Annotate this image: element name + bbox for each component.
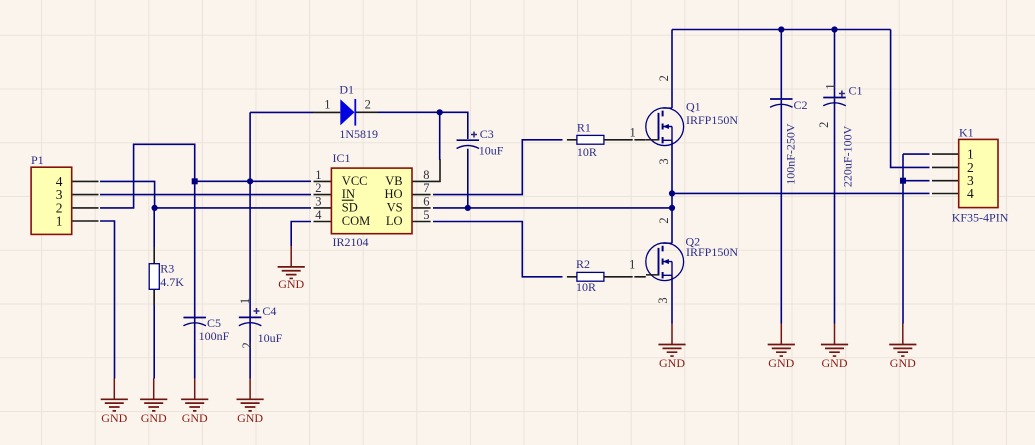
wire IC1 VS to phase node (433, 207, 672, 209)
svg-text:GND: GND (278, 277, 304, 291)
svg-text:IC1: IC1 (333, 151, 351, 165)
wire node B down to IC1 VB (439, 112, 441, 160)
svg-text:HO: HO (385, 187, 403, 201)
svg-text:2: 2 (315, 181, 321, 195)
svg-text:VS: VS (387, 201, 403, 215)
svg-text:8: 8 (423, 168, 429, 182)
ground C1 (821, 324, 848, 371)
wire P1.2 jog up to VCC node (100, 144, 195, 208)
svg-text:1N5819: 1N5819 (339, 127, 378, 141)
svg-text:2: 2 (657, 217, 671, 223)
ground IC1 COM (278, 246, 305, 291)
svg-text:C3: C3 (480, 127, 494, 141)
ground R3 (140, 378, 167, 425)
wire Q1 source to Q2 drain (671, 140, 673, 243)
wire C5 bottom to GND (194, 318, 196, 379)
P1 pins 4,3,2,1 (72, 181, 99, 221)
pin stubs (black) (72, 112, 959, 305)
capacitor C5 (183, 316, 229, 343)
node B junction (437, 109, 443, 115)
svg-text:C1: C1 (849, 83, 863, 97)
transistor Q2 (646, 217, 739, 303)
node C1 top junction (831, 26, 837, 32)
wire VCC node to IC1 VCC (195, 180, 311, 182)
svg-text:4.7K: 4.7K (160, 275, 184, 289)
svg-text:10R: 10R (577, 145, 597, 159)
svg-text:IR2104: IR2104 (333, 235, 369, 249)
svg-text:R2: R2 (576, 257, 590, 271)
ground C2 (768, 324, 795, 371)
ground P1.1 (101, 378, 128, 425)
wire C4 bottom to GND (249, 318, 251, 379)
wire C2 bottom to GND (780, 100, 782, 324)
R1 leads (567, 139, 646, 141)
R2 leads (567, 276, 646, 278)
wire K1 pin3 stub to vertical (903, 180, 930, 182)
D1 cathode bar (354, 99, 356, 126)
wire IC1 COM to GND (291, 222, 311, 247)
svg-text:IRFP150N: IRFP150N (686, 245, 738, 259)
C1 plus sign (839, 91, 845, 97)
ground C5 (181, 378, 208, 425)
svg-text:1: 1 (324, 98, 330, 112)
svg-text:2: 2 (365, 98, 371, 112)
svg-text:VB: VB (385, 174, 402, 188)
wire P1.1 to GND (100, 221, 115, 379)
svg-text:C2: C2 (794, 98, 808, 112)
wire top rail down to K1 pin2 (891, 30, 930, 168)
svg-text:KF35-4PIN: KF35-4PIN (952, 211, 1009, 225)
wire P1.4 to node R3/SD (100, 181, 155, 208)
svg-text:IN: IN (342, 187, 355, 201)
svg-text:IRFP150N: IRFP150N (686, 113, 738, 127)
capacitor C1 (817, 83, 863, 187)
transistor Q1 (646, 75, 739, 164)
wire Q1 drain up (671, 30, 673, 109)
svg-text:5: 5 (423, 208, 429, 222)
svg-text:C4: C4 (262, 304, 276, 318)
svg-text:C5: C5 (207, 316, 221, 330)
svg-text:3: 3 (656, 297, 670, 303)
svg-text:2: 2 (657, 75, 671, 81)
svg-text:2: 2 (817, 122, 831, 128)
svg-text:GND: GND (768, 356, 794, 370)
svg-text:GND: GND (890, 356, 916, 370)
wire node B to C3 (440, 112, 468, 139)
svg-text:GND: GND (822, 356, 848, 370)
node C2 top junction (778, 26, 784, 32)
svg-text:P1: P1 (31, 153, 44, 167)
wire C1 bottom to GND (834, 99, 836, 324)
resistor R3 (149, 262, 184, 290)
wire K1 pin1 to GND vertical (903, 153, 930, 155)
C4 plus sign (254, 308, 260, 314)
wire C2 top lead (780, 30, 782, 100)
svg-text:10uF: 10uF (258, 331, 283, 345)
capacitor C4 (238, 298, 283, 349)
svg-text:D1: D1 (339, 83, 354, 97)
wire IC1 LO to R2 (433, 222, 563, 277)
svg-text:4: 4 (315, 208, 322, 222)
svg-text:GND: GND (101, 411, 127, 425)
svg-text:4: 4 (967, 186, 974, 201)
svg-text:LO: LO (386, 214, 403, 228)
svg-text:1: 1 (823, 83, 837, 89)
capacitor C2 (770, 98, 807, 185)
svg-text:R3: R3 (160, 262, 174, 276)
node A junction (152, 205, 158, 211)
ground C4 (237, 378, 264, 425)
capacitor C3 (457, 127, 504, 158)
svg-text:10uF: 10uF (479, 144, 504, 158)
wire IC1 HO to R1 (433, 140, 563, 195)
ground K1 (889, 324, 916, 371)
svg-text:GND: GND (141, 411, 167, 425)
wire phase node to K1 pin4 (672, 192, 930, 194)
C3 plus sign (471, 132, 477, 138)
svg-text:2: 2 (240, 342, 254, 348)
wire D1 anode down to VCC node and C4 (249, 112, 251, 317)
connector P1 (31, 153, 72, 235)
svg-text:1: 1 (56, 213, 63, 228)
svg-text:GND: GND (659, 356, 685, 370)
wire C1 top lead (834, 30, 836, 98)
D1 leads (313, 111, 378, 113)
svg-text:6: 6 (423, 194, 429, 208)
wire to D1 anode (250, 111, 313, 113)
svg-text:1: 1 (630, 125, 636, 139)
resistor R1 (577, 120, 636, 159)
svg-text:1: 1 (238, 298, 252, 304)
node VCC/C4 junction (247, 178, 253, 184)
wire top rail (672, 29, 891, 31)
svg-text:7: 7 (423, 181, 429, 195)
svg-text:GND: GND (182, 411, 208, 425)
wire node A to IC1 SD (155, 207, 311, 209)
node VCC/C5 square junction (192, 178, 198, 184)
diode D1 (324, 83, 378, 141)
svg-text:3: 3 (315, 194, 321, 208)
resistor R2 (576, 257, 635, 294)
K1 pins 1-4 (932, 154, 959, 193)
svg-text:K1: K1 (959, 125, 974, 139)
svg-text:10R: 10R (576, 280, 596, 294)
node VS/source junction (669, 205, 675, 211)
svg-text:COM: COM (342, 214, 370, 228)
wire R3 bottom to GND (153, 289, 155, 378)
svg-text:100nF: 100nF (199, 329, 230, 343)
svg-text:VCC: VCC (342, 174, 368, 188)
connector K1 (952, 125, 1009, 224)
wire C3 bottom to VS wire (467, 149, 469, 208)
svg-text:1: 1 (629, 258, 635, 272)
wire Q2 source down (671, 275, 673, 323)
svg-text:Q1: Q1 (686, 100, 701, 114)
svg-text:3: 3 (657, 158, 671, 164)
node K1 pin3 square junction (900, 178, 906, 184)
node C3/VS junction (465, 205, 471, 211)
IC1 right pins 8-5 (412, 159, 440, 222)
node phase junction (669, 190, 675, 196)
svg-text:100nF-250V: 100nF-250V (784, 123, 798, 185)
ground Q2 source (658, 324, 685, 371)
IC1 left pins 1-4 (314, 181, 332, 221)
R3 leads (153, 247, 155, 305)
wire vertical K1 pin1/pin3 to GND (902, 154, 904, 324)
svg-text:GND: GND (237, 411, 263, 425)
svg-text:220uF-100V: 220uF-100V (841, 125, 855, 187)
wire P1.3 to IC1 IN (100, 194, 311, 196)
op-amp driver IC1 IR2104 (315, 151, 429, 249)
wire D1 cathode to node B (378, 111, 440, 113)
svg-text:SD: SD (342, 201, 358, 215)
svg-text:R1: R1 (577, 120, 591, 134)
svg-text:1: 1 (315, 168, 321, 182)
wire node A down to R3 (153, 208, 155, 247)
wire C5 top lead (194, 181, 196, 317)
